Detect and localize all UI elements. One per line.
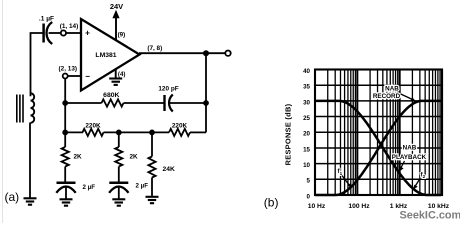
svg-text:40: 40 [303, 68, 310, 75]
middle branch rail [118, 132, 120, 147]
svg-text:2K: 2K [130, 154, 139, 161]
input node (1, 14) [60, 23, 78, 36]
svg-text:220K: 220K [85, 123, 101, 130]
NAB playback curve [315, 101, 441, 195]
svg-text:RESPONSE (dB): RESPONSE (dB) [283, 103, 292, 165]
svg-text:(4): (4) [118, 71, 126, 78]
wire 220K to right rail [190, 131, 206, 133]
feedback junction right [203, 100, 209, 106]
f1 marker [338, 168, 352, 188]
capacitor C3 2 uF [56, 183, 95, 199]
lower divider line [65, 131, 83, 133]
NAB PLAYBACK label [392, 144, 427, 172]
ground right branch [146, 197, 159, 203]
resistor 220K right [169, 123, 190, 136]
NAB record curve [315, 101, 441, 195]
svg-text:.1 µF: .1 µF [39, 16, 54, 23]
svg-text:30: 30 [303, 99, 310, 106]
inverting input node (2, 13) [59, 66, 77, 79]
wire node to inverting input [68, 75, 81, 77]
svg-text:10 Hz: 10 Hz [308, 203, 326, 210]
ground middle branch [112, 199, 125, 205]
junction middle branch [116, 130, 122, 136]
wire 2K to C4 [118, 167, 120, 183]
graph grid [315, 70, 442, 196]
wire node to noninverting input [66, 32, 81, 34]
svg-text:2K: 2K [74, 154, 83, 161]
svg-text:35: 35 [303, 84, 310, 91]
svg-text:25: 25 [303, 115, 310, 122]
svg-text:PLAYBACK: PLAYBACK [392, 154, 427, 161]
junction left rail lower [62, 130, 68, 136]
feedback line [65, 102, 101, 104]
f2 marker [413, 171, 426, 189]
svg-text:LM381: LM381 [95, 52, 116, 59]
24V supply arrow pin 9 [110, 2, 123, 41]
wire between 220K resistors [104, 131, 170, 133]
svg-text:(a): (a) [5, 190, 20, 204]
wire 2K to C3 [64, 167, 66, 183]
svg-text:(9): (9) [118, 31, 126, 38]
svg-text:+: + [85, 28, 90, 37]
wire C2 to right rail [170, 102, 207, 104]
head ground wire [29, 123, 31, 199]
y axis labels [303, 68, 310, 201]
feedback junction left [62, 100, 68, 106]
svg-text:(b): (b) [264, 196, 279, 210]
svg-text:0: 0 [307, 193, 311, 200]
capacitor C4 2 uF [109, 183, 148, 200]
svg-text:220K: 220K [172, 123, 188, 130]
wire C1 to node [49, 32, 61, 34]
junction right branch [149, 130, 155, 136]
svg-text:680K: 680K [103, 92, 119, 99]
svg-text:−: − [85, 72, 90, 81]
svg-text:120 pF: 120 pF [158, 85, 178, 92]
resistor 2K left [62, 147, 82, 167]
resistor 24K [148, 157, 175, 178]
ground left branch [60, 199, 73, 205]
svg-text:24V: 24V [110, 2, 123, 11]
resistor 680K [102, 92, 124, 107]
svg-text:(7, 8): (7, 8) [147, 45, 162, 52]
svg-text:10: 10 [303, 162, 310, 169]
wire 680K to C2 [124, 102, 165, 104]
capacitor C1 .1 uF [39, 16, 54, 45]
svg-text:20: 20 [303, 131, 310, 138]
NAB RECORD label [373, 85, 416, 101]
op-amp U1 LM381 [81, 19, 140, 91]
svg-text:RECORD: RECORD [373, 93, 401, 100]
ground head [24, 198, 37, 204]
svg-text:(2, 13): (2, 13) [59, 66, 77, 73]
svg-text:NAB: NAB [403, 144, 417, 151]
svg-text:SeekIC.com: SeekIC.com [400, 210, 460, 222]
right branch rail [151, 132, 153, 156]
capacitor C2 120 pF [158, 85, 178, 111]
svg-text:2 µF: 2 µF [136, 183, 149, 190]
pin 4 to ground [109, 70, 122, 85]
wire 24K to ground [151, 178, 153, 197]
resistor 220K left [83, 123, 104, 136]
svg-text:(1, 14): (1, 14) [60, 23, 78, 30]
svg-text:5: 5 [307, 178, 311, 185]
output terminal [225, 51, 230, 56]
svg-text:15: 15 [303, 146, 310, 153]
left rail wire [64, 79, 66, 148]
x axis labels [308, 203, 450, 210]
svg-text:24K: 24K [163, 166, 175, 173]
svg-text:100 Hz: 100 Hz [348, 203, 370, 210]
svg-text:NAB: NAB [385, 85, 399, 92]
output junction node [203, 50, 209, 56]
right rail wire [205, 53, 207, 132]
wire head to C1 [31, 33, 44, 96]
output wire pins (7, 8) [139, 52, 225, 54]
resistor 2K middle [115, 147, 138, 167]
svg-text:2 µF: 2 µF [83, 184, 96, 191]
tape head transducer [17, 93, 34, 123]
